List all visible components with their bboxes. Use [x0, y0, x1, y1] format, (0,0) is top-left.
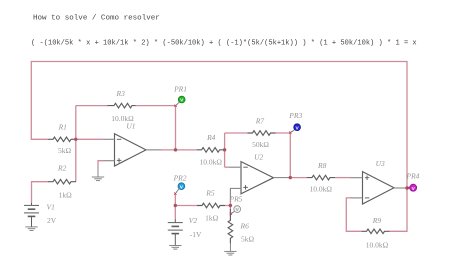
wire: R7 right to U2 output: [276, 133, 351, 178]
wire: V2 to R5 with probe stub: [175, 194, 197, 219]
svg-text:( -(10k/5k * x + 10k/1k * 2) *: ( -(10k/5k * x + 10k/1k * 2) * (-50k/10k…: [31, 40, 417, 48]
ground under V2: [169, 246, 181, 250]
junction node U2 output: [289, 176, 292, 179]
svg-text:PR5: PR5: [229, 194, 243, 203]
junction node R5/R6/U2 +: [229, 204, 232, 207]
svg-text:10.0kΩ: 10.0kΩ: [366, 241, 389, 250]
probe PR4: [407, 184, 417, 192]
wire: R5 right node to U2 + input and R6: [225, 200, 230, 210]
svg-text:U1: U1: [126, 122, 135, 131]
junction node R1/R2 summing: [74, 138, 77, 141]
svg-text:V2: V2: [189, 216, 198, 225]
battery V1: [24, 203, 39, 227]
svg-text:50kΩ: 50kΩ: [252, 140, 269, 149]
junction node R4 to U2 inverting: [223, 148, 226, 151]
junction node V2/R5: [174, 204, 177, 207]
probe PR5: [230, 206, 241, 215]
op-amp U3 (+ on top): [363, 172, 395, 204]
svg-text:R1: R1: [58, 123, 67, 132]
svg-text:1kΩ: 1kΩ: [205, 213, 219, 222]
wire: R2 to V1: [32, 182, 49, 203]
svg-text:R2: R2: [57, 164, 67, 173]
resistor R1: [48, 137, 76, 142]
probe PR3: [289, 124, 300, 134]
svg-text:How to solve / Como resolver: How to solve / Como resolver: [33, 15, 160, 23]
wire: feedback loop from U3 output to R1 (net x): [31, 62, 407, 189]
svg-text:U2: U2: [254, 152, 263, 161]
svg-text:5kΩ: 5kΩ: [58, 146, 72, 155]
junction node U3 output: [405, 186, 408, 189]
wire: U3 output: [406, 187, 409, 189]
svg-text:R4: R4: [206, 133, 216, 142]
resistor R3: [108, 103, 136, 108]
svg-text:5kΩ: 5kΩ: [241, 234, 255, 243]
wire: R3 right to U1 output: [136, 106, 176, 150]
ground under V1: [25, 227, 37, 231]
resistor R7: [248, 131, 276, 136]
svg-text:10.0kΩ: 10.0kΩ: [310, 185, 333, 194]
resistor R6 (vertical): [228, 209, 233, 244]
svg-text:R3: R3: [116, 89, 126, 98]
resistor R2: [48, 179, 76, 184]
svg-text:-1V: -1V: [190, 230, 202, 239]
ground under R6: [224, 243, 236, 256]
svg-text:R7: R7: [255, 117, 265, 126]
wire: U1 output to R4 and up to R7 node: [162, 133, 248, 167]
svg-text:U3: U3: [376, 159, 385, 168]
svg-text:PR1: PR1: [173, 84, 187, 93]
resistor R4: [197, 148, 225, 153]
svg-text:2V: 2V: [47, 216, 57, 225]
svg-text:10.0kΩ: 10.0kΩ: [200, 158, 223, 167]
wire: U3 feedback through R9: [346, 188, 407, 231]
ground at U1 + input: [98, 161, 104, 167]
battery V2: [168, 219, 183, 246]
svg-text:R5: R5: [205, 188, 215, 197]
svg-text:R9: R9: [372, 216, 382, 225]
resistor R9: [362, 229, 390, 234]
svg-text:PR2: PR2: [173, 173, 187, 182]
svg-text:1kΩ: 1kΩ: [59, 190, 73, 199]
svg-text:V1: V1: [47, 203, 55, 212]
junction node U1 output: [174, 148, 177, 151]
op-amp U1: [115, 134, 147, 166]
probe PR2: [174, 183, 185, 195]
resistor R8: [307, 175, 335, 180]
svg-text:PR4: PR4: [406, 172, 420, 181]
wire: R1/R2 summing node vertical and branches: [76, 106, 108, 182]
svg-text:R8: R8: [317, 161, 327, 170]
op-amp U2: [241, 162, 274, 194]
probe PR1: [174, 96, 185, 107]
svg-text:R6: R6: [240, 222, 250, 231]
resistor R5: [197, 203, 225, 208]
svg-text:PR3: PR3: [288, 111, 302, 120]
